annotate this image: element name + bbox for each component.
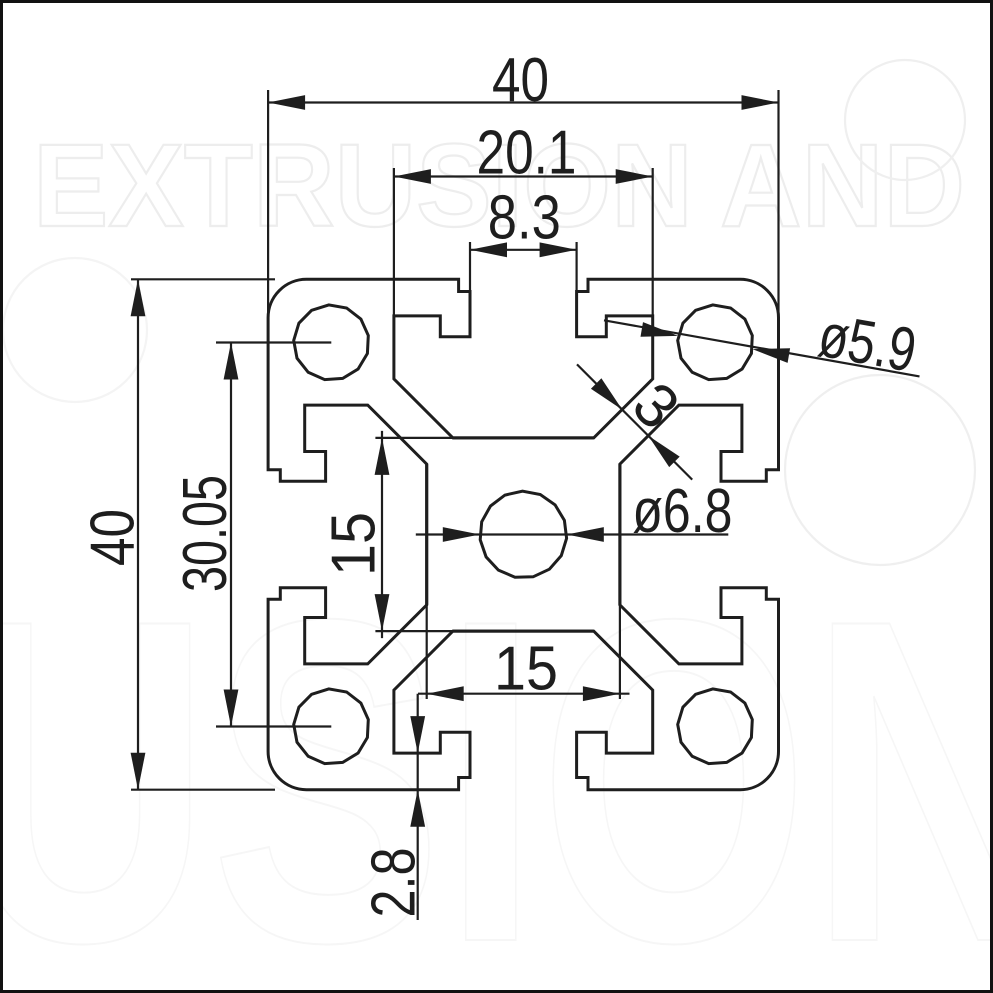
corner hole top-left bbox=[294, 305, 369, 380]
dim 40 top extension lines bbox=[267, 90, 269, 318]
arrows 15 vertical bbox=[375, 438, 390, 475]
center boss walls bbox=[453, 436, 594, 439]
dim 3 line bbox=[577, 364, 692, 479]
dim 8.3 extension lines bbox=[469, 242, 471, 292]
dim 30.05 line bbox=[230, 343, 232, 727]
arrows dia 6.8 bbox=[443, 527, 480, 542]
leader line dia 5.9 bbox=[604, 320, 920, 376]
dim 15 vertical extension lines bbox=[375, 437, 453, 439]
arrows dia 5.9 bbox=[641, 322, 679, 337]
svg-text:40: 40 bbox=[79, 509, 148, 566]
svg-text:40: 40 bbox=[492, 46, 549, 115]
arrows 15 bottom bbox=[427, 686, 464, 701]
profile outline with 4 T-slots bbox=[268, 279, 778, 789]
corner hole bottom-right bbox=[678, 689, 753, 764]
dim 40 left line bbox=[137, 279, 139, 789]
dim 30.05 extension lines bbox=[216, 341, 331, 343]
dim 20.1 extension lines bbox=[393, 168, 395, 316]
dim 20.1 line bbox=[394, 175, 653, 177]
svg-text:2.8: 2.8 bbox=[360, 848, 429, 918]
dim 2.8 line bbox=[417, 694, 419, 920]
arrows 8.3 bbox=[470, 242, 507, 257]
svg-text:30.05: 30.05 bbox=[171, 475, 240, 592]
svg-text:15: 15 bbox=[320, 512, 389, 576]
dim 15 vertical line bbox=[381, 431, 383, 638]
arrows dim 3 bbox=[591, 378, 622, 409]
svg-text:15: 15 bbox=[494, 635, 558, 704]
svg-text:ø6.8: ø6.8 bbox=[632, 477, 732, 546]
dim 8.3 line bbox=[470, 249, 577, 251]
arrows 40 left bbox=[131, 279, 146, 316]
svg-text:USION: USION bbox=[0, 525, 993, 993]
arrows 30.05 bbox=[224, 343, 239, 380]
dim 40 left extension lines bbox=[131, 278, 275, 280]
corner hole top-right bbox=[678, 305, 753, 380]
svg-text:20.1: 20.1 bbox=[477, 119, 577, 188]
dim dia 6.8 line bbox=[416, 533, 729, 535]
corner hole bottom-left bbox=[294, 689, 369, 764]
dim 40 top line bbox=[268, 101, 778, 103]
dim 15 bottom extension lines bbox=[426, 605, 428, 699]
dim 15 bottom line bbox=[418, 693, 630, 695]
center hole bbox=[480, 491, 566, 577]
svg-text:8.3: 8.3 bbox=[488, 184, 561, 253]
arrows 20.1 bbox=[394, 169, 431, 184]
arrows 40 top bbox=[268, 95, 305, 110]
arrows 2.8 bbox=[410, 716, 425, 753]
